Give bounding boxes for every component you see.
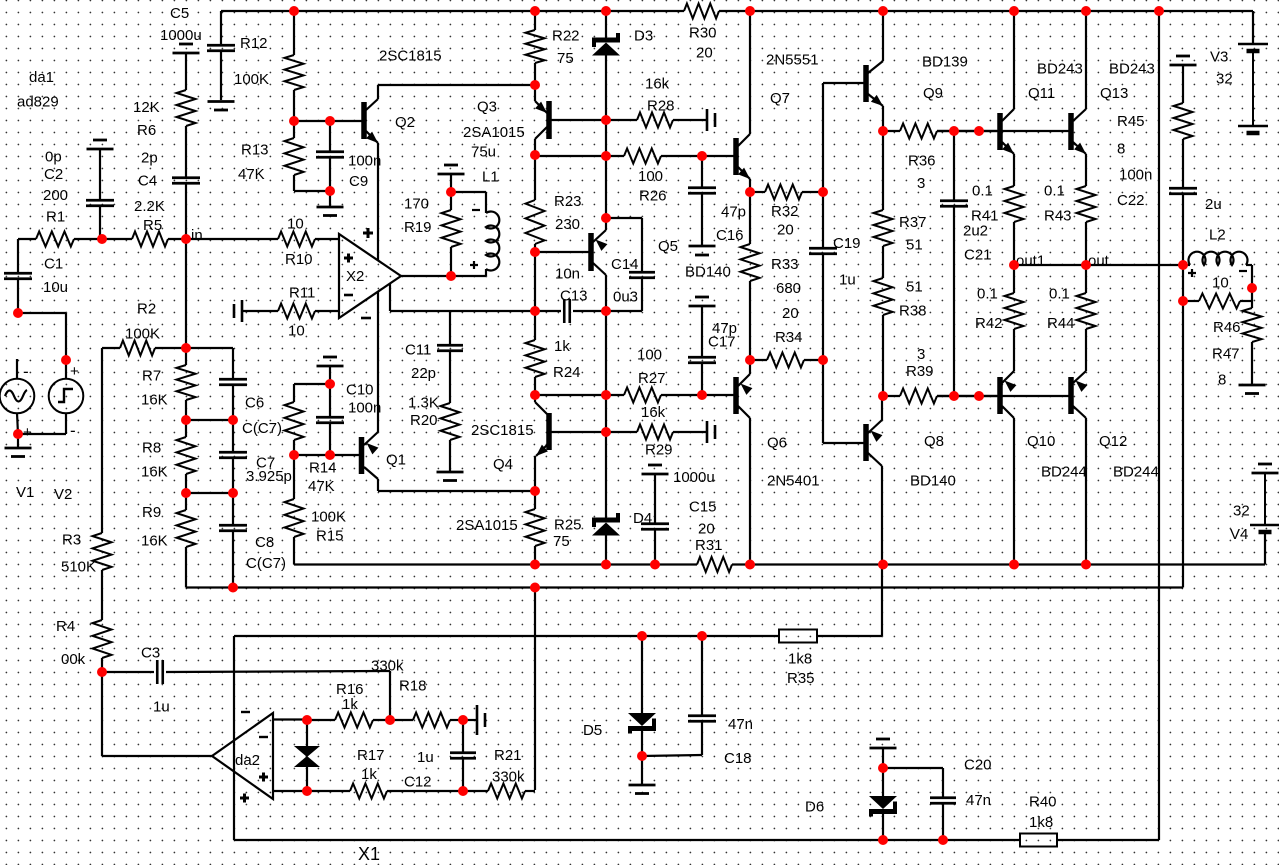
svg-text:47p: 47p [721, 204, 746, 221]
wire opamp comp pin [389, 283, 391, 311]
junction dot (186,493) [181, 488, 191, 498]
wire x606 v3 [605, 395, 607, 432]
resistor R1 [18, 238, 36, 240]
svg-text:R44: R44 [1047, 315, 1075, 332]
svg-text:R29: R29 [645, 442, 673, 459]
source V2 square [65, 360, 67, 379]
svg-text:R27: R27 [638, 370, 666, 387]
svg-text:2SA1015: 2SA1015 [456, 517, 518, 534]
svg-text:BD139: BD139 [922, 54, 968, 71]
junction dot (954,396) [949, 391, 959, 401]
svg-text:C22: C22 [1117, 192, 1145, 209]
svg-text:R17: R17 [357, 747, 385, 764]
svg-text:47n: 47n [728, 716, 753, 733]
resistor R3 column [101, 348, 103, 533]
svg-text:100: 100 [638, 168, 663, 185]
svg-text:R36: R36 [908, 153, 936, 170]
svg-text:C15: C15 [689, 499, 717, 516]
svg-text:C4: C4 [138, 173, 157, 190]
junction dot (233,587.5) [228, 583, 238, 593]
svg-text:C17: C17 [708, 334, 736, 351]
svg-text:330k: 330k [371, 658, 404, 675]
junction dot (102,239) [97, 234, 107, 244]
resistor R20 [441, 403, 460, 440]
ground under R20 [437, 471, 464, 474]
junction dot (750,360) [745, 355, 755, 365]
svg-text:C13: C13 [560, 288, 588, 305]
junction dot (979,396) [974, 391, 984, 401]
svg-text:20: 20 [696, 45, 713, 62]
capacitor C5 (100K branch) at x=221 [220, 11, 222, 45]
resistor R36 [883, 130, 900, 132]
svg-text:R4: R4 [56, 618, 75, 635]
junction dot (535,587.5) [530, 583, 540, 593]
C5/R6/C4 column x=186 [173, 52, 200, 55]
junction dot (702,636) [697, 631, 707, 641]
svg-text:0.1: 0.1 [977, 286, 998, 303]
svg-text:16k: 16k [641, 404, 666, 421]
svg-text:R6: R6 [137, 122, 156, 139]
wire Q1 base row [294, 454, 359, 456]
source V1 sine [16, 359, 18, 379]
junction dot (294,121) [289, 116, 299, 126]
wire R35 column x=882 [881, 565, 883, 637]
svg-text:R39: R39 [906, 363, 934, 380]
svg-text:10u: 10u [43, 279, 68, 296]
junction dot (330,121) [325, 116, 335, 126]
resistor R6 [177, 90, 196, 126]
transistor Q2 2SC1815 [361, 102, 367, 139]
svg-text:100: 100 [637, 347, 662, 364]
svg-text:51: 51 [906, 237, 923, 254]
junction dot (606,11) [601, 6, 611, 16]
svg-text:R23: R23 [554, 193, 582, 210]
svg-text:510K: 510K [61, 559, 96, 576]
resistor R17 [307, 790, 350, 792]
resistor R27 [606, 394, 624, 396]
svg-text:L2: L2 [1209, 227, 1226, 244]
junction dot (102,672) [97, 667, 107, 677]
svg-text:47K: 47K [308, 478, 335, 495]
svg-text:8: 8 [1117, 141, 1125, 158]
capacitor C4 [172, 176, 200, 179]
svg-text:75: 75 [553, 533, 570, 550]
svg-text:3.925p: 3.925p [246, 468, 292, 485]
svg-text:C3: C3 [141, 645, 160, 662]
svg-text:1u: 1u [417, 749, 434, 766]
inductor L1 [451, 191, 486, 193]
transistor Q10 BD244 [1013, 265, 1015, 293]
svg-text:R7: R7 [142, 368, 161, 385]
svg-text:in: in [191, 227, 203, 244]
open cap left of R11 [241, 300, 244, 322]
battery V4 [1252, 472, 1279, 475]
open cap right of R29 [706, 421, 709, 443]
resistor R32 [750, 191, 765, 193]
svg-text:C5: C5 [170, 5, 189, 22]
svg-text:V3: V3 [1210, 49, 1228, 66]
resistor R9 [185, 493, 187, 510]
wire opamp -input [315, 310, 339, 312]
capacitor C10 [329, 384, 331, 417]
svg-text:Q5: Q5 [658, 238, 678, 255]
junction dot (294,455) [289, 450, 299, 460]
wire x606 v1 [605, 120, 607, 156]
junction dot (535,155) [530, 150, 540, 160]
resistor R47 [1251, 288, 1253, 308]
svg-text:2SA1015: 2SA1015 [463, 124, 525, 141]
svg-text:R45: R45 [1117, 113, 1145, 130]
junction dot (535,491) [530, 486, 540, 496]
capacitor C16 branch [701, 156, 703, 187]
svg-text:Q2: Q2 [395, 114, 415, 131]
capacitor C6 column x=233 [186, 347, 233, 349]
junction dot (606,218) [601, 213, 611, 223]
svg-text:R21: R21 [494, 747, 522, 764]
ground under D5 [641, 756, 643, 784]
svg-text:R24: R24 [553, 364, 581, 381]
svg-text:R18: R18 [399, 678, 427, 695]
svg-text:16k: 16k [645, 76, 670, 93]
capacitor C17 branch [689, 305, 716, 308]
svg-text:100K: 100K [311, 509, 346, 526]
junction dot (233,420) [228, 415, 238, 425]
svg-text:+: + [23, 424, 32, 441]
junction dot (390,720) [385, 715, 395, 725]
svg-text:1.3K: 1.3K [408, 395, 439, 412]
junction dot (463,720) [458, 715, 468, 725]
junction dot (535,564.5) [530, 560, 540, 570]
resistor R16 [307, 719, 335, 721]
ground under C5 branch [208, 100, 235, 103]
svg-text:2N5401: 2N5401 [767, 473, 820, 490]
wire x606 v2 [605, 311, 607, 395]
resistor R33 [749, 192, 751, 244]
resistor R2 [185, 239, 187, 348]
resistor R26 [606, 155, 624, 157]
junction dot (954,131) [949, 126, 959, 136]
junction dot (606,120) [601, 115, 611, 125]
junction dot (750,11) [745, 6, 755, 16]
resistor R7 [185, 348, 187, 365]
wire base row Q2 [294, 120, 362, 122]
svg-text:20: 20 [777, 222, 794, 239]
wire Q2 collector to R22 node [378, 84, 535, 86]
wire base row Q11 Q13 [937, 130, 1069, 132]
svg-text:75u: 75u [471, 144, 496, 161]
svg-text:C12: C12 [404, 774, 432, 791]
junction dot (535,11) [530, 6, 540, 16]
wire R4 node down [101, 672, 103, 756]
svg-text:16K: 16K [141, 392, 168, 409]
junction dot (883,768) [878, 763, 888, 773]
junction dot (294,11) [289, 6, 299, 16]
zener D3 [605, 11, 607, 38]
svg-text:100K: 100K [234, 71, 269, 88]
wire bottom y=840 [234, 839, 1020, 841]
svg-text:75: 75 [557, 50, 574, 67]
resistor R34 [750, 359, 767, 361]
svg-text:L1: L1 [482, 169, 499, 186]
svg-text:1k: 1k [554, 338, 570, 355]
svg-text:C14: C14 [611, 256, 639, 273]
transistor Q11 BD243 [997, 113, 1003, 150]
svg-text:-: - [23, 362, 29, 381]
svg-text:C9: C9 [349, 173, 368, 190]
svg-text:C16: C16 [716, 227, 744, 244]
op-amp X2 [339, 234, 401, 318]
svg-text:R35: R35 [787, 670, 815, 687]
junction dot (642,636) [637, 631, 647, 641]
junction dot (18,434) [13, 429, 23, 439]
wire rail1 y=564 [294, 563, 697, 565]
svg-text:Q11: Q11 [1028, 85, 1055, 102]
svg-text:ad829: ad829 [17, 94, 59, 111]
svg-text:0p: 0p [45, 149, 62, 166]
resistor R18 [390, 719, 413, 721]
svg-text:230: 230 [555, 216, 580, 233]
svg-text:R25: R25 [554, 517, 582, 534]
svg-text:+: + [70, 363, 79, 380]
svg-text:10: 10 [288, 323, 305, 340]
svg-text:R5: R5 [143, 217, 162, 234]
svg-text:R28: R28 [647, 98, 675, 115]
junction dot (463,791) [458, 786, 468, 796]
capacitor C19 column x=823 [822, 83, 824, 192]
capacitor C12 [462, 720, 464, 752]
transistor Q8 BD140 [823, 442, 864, 444]
junction dot (186,239) [181, 234, 191, 244]
svg-text:R20: R20 [410, 412, 438, 429]
junction dot (1159,11) [1154, 6, 1164, 16]
junction dot (1014,11) [1009, 6, 1019, 16]
svg-text:R42: R42 [975, 315, 1003, 332]
resistor R13 [285, 138, 304, 175]
svg-text:R9: R9 [142, 504, 161, 521]
capacitor C22 [1182, 139, 1184, 188]
svg-text:D3: D3 [634, 28, 653, 45]
svg-text:R14: R14 [309, 460, 337, 477]
junction dot (1252,288) [1247, 283, 1257, 293]
svg-text:2SC1815: 2SC1815 [471, 422, 534, 439]
svg-text:330k: 330k [492, 769, 525, 786]
svg-text:Q4: Q4 [493, 456, 513, 473]
node V3 corner wire [1252, 11, 1254, 44]
svg-text:C2: C2 [44, 166, 63, 183]
svg-text:100n: 100n [1119, 167, 1152, 184]
junction dot (535,252) [530, 247, 540, 257]
junction dot (330,191) [325, 186, 335, 196]
ground under V1 V2 [17, 434, 19, 447]
svg-text:out: out [1088, 253, 1110, 270]
svg-text:R2: R2 [137, 301, 156, 318]
resistor R14 [294, 383, 330, 385]
resistor R21 [463, 790, 488, 792]
junction dot (451,192) [446, 187, 456, 197]
svg-text:12K: 12K [133, 99, 160, 116]
transistor Q4 2SC1815 mirrored [534, 395, 536, 402]
junction dot (186,348) [181, 343, 191, 353]
junction dot (307,720) [302, 715, 312, 725]
svg-text:V2: V2 [54, 486, 72, 503]
capacitor C18 [701, 636, 703, 715]
svg-text:10n: 10n [555, 266, 580, 283]
resistor R19 [450, 192, 452, 210]
svg-text:R22: R22 [552, 28, 580, 45]
resistor R43 [1077, 186, 1096, 222]
svg-text:1000u: 1000u [673, 469, 715, 486]
junction dot (535,85) [530, 80, 540, 90]
svg-text:da1: da1 [29, 69, 54, 86]
resistor R30 [684, 4, 719, 19]
svg-text:R41: R41 [971, 208, 999, 225]
svg-text:V4: V4 [1230, 526, 1248, 543]
X1 box left edge [233, 636, 235, 840]
capacitor C1 column x=18 [17, 239, 19, 272]
svg-text:100n: 100n [348, 400, 381, 417]
svg-text:1k8: 1k8 [788, 651, 812, 668]
svg-text:Q8: Q8 [924, 433, 944, 450]
zener D4 [605, 432, 607, 518]
ground under C9 [329, 191, 331, 206]
wire da2 out top [273, 718, 307, 720]
transistor Q13 BD243 [1068, 113, 1074, 150]
svg-text:R34: R34 [775, 329, 803, 346]
junction dot (1086,11) [1081, 6, 1091, 16]
svg-text:X2: X2 [346, 268, 364, 285]
junction dot (1014,265) [1009, 260, 1019, 270]
svg-text:100K: 100K [125, 326, 160, 343]
svg-text:1k: 1k [342, 696, 358, 713]
svg-text:680: 680 [776, 280, 801, 297]
svg-text:Q9: Q9 [923, 85, 943, 102]
svg-text:R19: R19 [404, 219, 432, 236]
wire C3 to R16R18 node [389, 671, 391, 720]
svg-text:Q7: Q7 [770, 90, 790, 107]
open cap right of R18 [463, 719, 477, 721]
svg-text:C(C7): C(C7) [242, 420, 282, 437]
junction dot (451,276) [446, 271, 456, 281]
wire opamp output [401, 275, 451, 277]
svg-text:D5: D5 [583, 722, 602, 739]
resistor R29 [606, 431, 637, 433]
open terminal above C10 [317, 365, 344, 368]
junction dot (1183,301) [1178, 296, 1188, 306]
svg-text:Q3: Q3 [477, 99, 497, 116]
svg-text:D6: D6 [805, 799, 824, 816]
wire base row Q10 Q12 [937, 395, 1069, 397]
resistor R31 on rail1 [697, 557, 732, 572]
junction dot (66,360) [61, 355, 71, 365]
capacitor C7 [232, 420, 234, 452]
svg-text:20: 20 [698, 521, 715, 538]
svg-text:0.1: 0.1 [1044, 183, 1065, 200]
svg-text:C(C7): C(C7) [246, 555, 286, 572]
junction dot (1086,265) [1081, 260, 1091, 270]
diode pair bowtie [306, 720, 308, 747]
resistor R45 [1174, 103, 1193, 139]
svg-text:00k: 00k [61, 651, 86, 668]
svg-text:R37: R37 [899, 214, 927, 231]
wire feedback row y=636 [234, 635, 779, 637]
resistor R25 [534, 491, 536, 509]
svg-text:100n: 100n [348, 153, 381, 170]
svg-text:200: 200 [43, 187, 68, 204]
junction dot (330,455) [325, 450, 335, 460]
svg-text:0.1: 0.1 [972, 183, 993, 200]
capacitor C8 [232, 493, 234, 525]
resistor R38 [882, 246, 884, 278]
svg-text:32: 32 [1216, 71, 1233, 88]
junction dot (1014,564.5) [1009, 560, 1019, 570]
resistor R22 [534, 11, 536, 30]
capacitor C13 [535, 310, 561, 312]
svg-text:Q12: Q12 [1099, 433, 1127, 450]
svg-text:2SC1815: 2SC1815 [379, 48, 442, 65]
capacitor C21 column x=954 [953, 131, 955, 200]
resistor R35 box [779, 630, 817, 643]
svg-text:R3: R3 [62, 532, 81, 549]
svg-text:V1: V1 [16, 484, 34, 501]
capacitor C9 column x=330 [329, 121, 331, 151]
svg-text:-: - [70, 421, 76, 440]
junction dot (883,564.5) [878, 560, 888, 570]
open terminal above R19 [438, 173, 465, 176]
svg-text:C6: C6 [245, 395, 264, 412]
resistor R28 [606, 119, 637, 121]
junction dot (535,395) [530, 390, 540, 400]
junction dot (18,313) [13, 308, 23, 318]
svg-text:C21: C21 [964, 247, 992, 264]
junction dot (883,131) [878, 126, 888, 136]
junction dot (979,131) [974, 126, 984, 136]
junction dot (883,396) [878, 391, 888, 401]
svg-text:BD243: BD243 [1037, 61, 1083, 78]
wire Q2 emitter down to opamp V+ [377, 143, 379, 260]
resistor R37 [882, 131, 884, 210]
junction dot (1086,564.5) [1081, 560, 1091, 570]
resistor R11 [278, 304, 315, 319]
svg-text:R32: R32 [771, 203, 799, 220]
resistor R5 [102, 238, 132, 240]
transistor Q6 2N5401 [702, 394, 734, 396]
svg-text:R40: R40 [1029, 794, 1057, 811]
junction dot (883,840) [878, 835, 888, 845]
svg-text:BD243: BD243 [1109, 61, 1155, 78]
resistor R15 [293, 455, 295, 499]
svg-text:8: 8 [1218, 372, 1226, 389]
inductor L2 [1183, 264, 1190, 266]
svg-text:10: 10 [1212, 275, 1229, 292]
junction dot (606,432) [601, 427, 611, 437]
zener D5 [641, 636, 643, 713]
svg-text:32: 32 [1233, 503, 1250, 520]
svg-text:R10: R10 [285, 251, 313, 268]
transistor Q7 2N5551 [702, 155, 734, 157]
svg-text:Q1: Q1 [386, 452, 406, 469]
svg-text:R30: R30 [689, 25, 717, 42]
transistor Q1 2SA1015 [359, 437, 365, 474]
junction dot (606,395) [601, 390, 611, 400]
junction dot (823,192) [818, 187, 828, 197]
svg-text:1000u: 1000u [160, 27, 202, 44]
svg-text:BD244: BD244 [1113, 464, 1159, 481]
svg-text:2.2K: 2.2K [134, 198, 165, 215]
wire C22 bottom column [1182, 265, 1184, 301]
svg-text:20: 20 [782, 305, 799, 322]
capacitor C11 branch [449, 311, 451, 345]
svg-text:X1: X1 [358, 844, 380, 864]
